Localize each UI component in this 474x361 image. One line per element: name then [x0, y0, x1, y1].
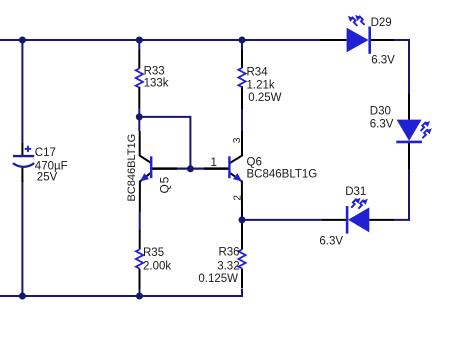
svg-text:3.32: 3.32	[217, 261, 239, 273]
pin R34 bottom lead	[241, 86, 243, 109]
junction Q6 emitter / D31 node	[239, 216, 246, 223]
pin R35 top lead	[139, 230, 141, 250]
svg-text:R33: R33	[144, 66, 165, 78]
wire right rail from D30 down and left to D31	[394, 169, 409, 220]
wire feedback loop node to base net	[139, 117, 190, 169]
pin Q5 base	[151, 167, 177, 170]
transistor Q6	[229, 156, 242, 181]
wire top rail net	[0, 39, 320, 41]
svg-text:Q6: Q6	[247, 156, 262, 168]
pin R35 bottom lead	[139, 269, 141, 290]
svg-text:2.00k: 2.00k	[143, 260, 171, 272]
pin C17 bottom lead	[21, 168, 23, 182]
resistor R35	[136, 250, 143, 269]
pin R34 top lead	[241, 50, 243, 68]
pin D31 cathode	[322, 219, 347, 221]
pin R33 top lead	[138, 50, 140, 69]
wire node to Q5 collector	[138, 117, 140, 131]
pin D31 anode	[369, 219, 394, 221]
junction base net node 1	[187, 165, 194, 172]
junction C17 bottom rail	[19, 293, 26, 300]
svg-text:2: 2	[232, 195, 243, 201]
svg-text:BC846BLT1G: BC846BLT1G	[126, 134, 138, 202]
pin C17 top lead	[21, 143, 23, 155]
LED D30	[396, 120, 432, 142]
svg-text:25V: 25V	[37, 172, 58, 184]
junction R34 top rail	[239, 37, 246, 44]
svg-text:133k: 133k	[144, 78, 169, 90]
wire top-right corner from D29 to D30	[394, 40, 409, 94]
svg-text:BC846BLT1G: BC846BLT1G	[247, 169, 318, 181]
pin R33 bottom lead	[138, 87, 140, 108]
svg-text:D29: D29	[371, 17, 392, 29]
pin D30 anode	[408, 94, 410, 120]
wire R33 bottom to node	[138, 108, 140, 117]
wire R33 top	[138, 40, 140, 50]
pin Q5 emitter	[140, 173, 151, 212]
svg-text:6.3V: 6.3V	[319, 235, 343, 247]
resistor R33	[136, 69, 143, 88]
wire Q5 emitter to R35	[139, 212, 141, 230]
label R35 values	[143, 247, 171, 272]
wire C17 top	[21, 40, 23, 143]
capacitor C17	[13, 146, 34, 167]
svg-text:R34: R34	[247, 66, 269, 78]
transistor Q5	[140, 156, 151, 181]
wire D31 to Q6 emitter node	[242, 219, 322, 221]
svg-text:D30: D30	[370, 105, 391, 117]
wire R34 bottom to Q6 collector	[241, 109, 243, 131]
junction R33 top rail	[136, 37, 143, 44]
pin R36 top lead	[241, 223, 243, 250]
svg-text:6.3V: 6.3V	[370, 118, 394, 130]
svg-text:1: 1	[211, 157, 217, 169]
pin Q6 collector	[230, 131, 242, 163]
LED D31	[347, 198, 369, 234]
wire C17 bottom	[21, 180, 23, 296]
svg-text:0.25W: 0.25W	[248, 92, 281, 104]
pin Q5 collector	[140, 131, 152, 163]
pin R36 bottom lead	[241, 269, 243, 289]
svg-text:0.125W: 0.125W	[198, 273, 238, 285]
resistor R34	[238, 68, 245, 87]
svg-text:D31: D31	[345, 186, 366, 198]
resistor R36	[238, 250, 245, 269]
wire base net	[177, 168, 204, 170]
LED D29	[347, 15, 370, 54]
junction R33 bottom / feedback node	[136, 113, 143, 120]
label R36 values	[198, 247, 239, 285]
svg-text:C17: C17	[35, 147, 56, 159]
label R33 values	[144, 66, 169, 90]
svg-text:Q5: Q5	[157, 176, 171, 194]
junction R35 bottom rail	[136, 293, 143, 300]
wire R35 bottom	[139, 289, 141, 297]
pin D29 cathode	[370, 39, 394, 41]
pin D30 cathode	[408, 142, 410, 169]
label R34 values	[247, 66, 282, 104]
wire bottom rail net	[0, 289, 242, 297]
svg-text:3: 3	[232, 137, 243, 143]
svg-text:R36: R36	[218, 247, 239, 259]
junction C17 top rail	[19, 37, 26, 44]
wire R34 top	[241, 40, 243, 50]
label C17 values	[35, 147, 68, 184]
pin D29 anode	[320, 39, 347, 41]
svg-text:1.21k: 1.21k	[247, 79, 275, 91]
svg-text:R35: R35	[143, 247, 164, 259]
pin Q6 emitter	[229, 173, 242, 218]
svg-text:6.3V: 6.3V	[371, 54, 395, 66]
pin Q6 base	[204, 167, 229, 170]
